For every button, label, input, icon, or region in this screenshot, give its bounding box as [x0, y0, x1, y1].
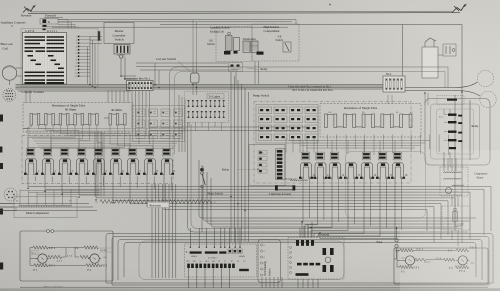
- wires bus to resistance box: [107, 90, 109, 103]
- wires above right contactors: [288, 140, 430, 142]
- unit2 outer outline: [170, 67, 449, 150]
- controller terminal list: [78, 36, 80, 38]
- lightning arrester second: [277, 186, 294, 190]
- cutout switch lower leads: [192, 84, 194, 96]
- controller drum chart frame: [23, 33, 67, 85]
- reverser bottom bar: [296, 273, 309, 276]
- feeder down right: [461, 25, 463, 93]
- pump switch terminal panel: [256, 105, 318, 144]
- spare coupler circle B: [480, 91, 496, 107]
- pantograph P1: [23, 6, 34, 13]
- label Rheostats: [148, 202, 170, 207]
- unit2 compartment box: [254, 102, 411, 184]
- left drop bundle: [151, 184, 153, 278]
- staircase right end drops: [490, 186, 492, 231]
- verticals compressor area: [443, 158, 445, 171]
- drum bottom band: [25, 82, 46, 84]
- contactor 15: [378, 152, 387, 160]
- reverser drum circle: [325, 257, 331, 263]
- bottom verticals center: [261, 277, 263, 291]
- connection box No.2: [383, 76, 405, 92]
- wire run to master controller: [58, 19, 296, 21]
- spare coupler circle A: [477, 70, 493, 86]
- fuse on motor box 1: [47, 230, 50, 233]
- rheostats zigzag: [100, 200, 155, 204]
- relay box far right: [425, 99, 490, 166]
- contactor 11: [316, 152, 325, 160]
- photo bottom edge: [0, 289, 500, 291]
- master controller switch box: [104, 23, 134, 44]
- box1 drop wires: [131, 91, 133, 129]
- auxiliary contact R: [40, 19, 58, 25]
- compensator collector wires: [20, 190, 100, 192]
- auxiliary contact third: [43, 28, 46, 30]
- verticals right resistance to contactor coils: [327, 135, 329, 149]
- resistor FF1: [34, 264, 48, 267]
- contactor 13: [346, 163, 357, 179]
- auxiliary device right top: [443, 44, 456, 56]
- reverser left terminals: [290, 247, 292, 249]
- contactor 16: [393, 152, 402, 160]
- resistance tubes right: [325, 114, 328, 128]
- transformer tank right: [422, 47, 438, 78]
- commutating drop wires: [188, 268, 190, 291]
- resistance tubes 46 ohm: [109, 114, 112, 126]
- main cable bus: [16, 84, 131, 86]
- coupler socket lower: [4, 188, 17, 201]
- reverser wires up: [299, 228, 301, 238]
- relay side marks: [258, 151, 267, 155]
- terminal bundle vertical: [89, 37, 91, 85]
- right contactor drops: [302, 177, 304, 223]
- resistor E4: [456, 249, 468, 252]
- relay under HT: [229, 63, 243, 72]
- motor circuit box 1: [20, 231, 113, 281]
- label To Lights: [207, 94, 224, 99]
- left edge bus lines: [0, 203, 14, 205]
- contactor 2: [43, 148, 52, 156]
- wire blowout to grid: [16, 67, 23, 69]
- main compensator box: [14, 197, 77, 218]
- commutating small boxes: [228, 249, 232, 254]
- governor box: [442, 206, 470, 230]
- contactor outlet staircase: [27, 175, 29, 187]
- reverser top contacts: [296, 240, 299, 246]
- commutating contact pairs: [187, 264, 190, 268]
- resistor AA1: [48, 255, 62, 258]
- right contactor enclosure: [346, 152, 426, 219]
- lighting fuse panel box: [185, 92, 229, 123]
- motor 2: [90, 254, 99, 263]
- trolley wire: [28, 13, 460, 14]
- HT drop wires: [254, 61, 256, 84]
- commutating detail panel: [185, 244, 257, 277]
- wires in motor box: [30, 248, 38, 259]
- governor device: [453, 212, 458, 222]
- resistance box right: [320, 104, 421, 138]
- resistance tubes 96 ohm: [30, 114, 33, 126]
- pantograph P2: [452, 5, 465, 13]
- bus to coupler circles: [405, 82, 477, 88]
- reverser middle bars: [297, 263, 302, 266]
- governor wires: [451, 196, 453, 206]
- junction dots: [27, 188, 29, 190]
- contactor 12: [330, 152, 339, 160]
- compressor motor box: [440, 167, 468, 196]
- center vertical bundle: [230, 72, 232, 242]
- wires below master controller: [120, 58, 122, 76]
- bottom bus wires: [106, 282, 493, 284]
- wires resistance to contactors: [28, 125, 31, 152]
- blow-out coil: [2, 66, 16, 80]
- terminal block panel: [133, 106, 185, 142]
- auxiliary contact F: [43, 25, 47, 27]
- drum contact bars: [25, 36, 46, 38]
- relay bank box: [249, 145, 285, 186]
- resistor EE1: [33, 246, 48, 249]
- high tension compartment box: [252, 24, 299, 61]
- drum finger lines: [25, 34, 27, 83]
- resistance box left: [23, 103, 133, 133]
- motor 1: [38, 254, 47, 263]
- outline drop to bus: [447, 67, 449, 88]
- relay inner loops: [431, 104, 480, 159]
- contactor 10: [301, 152, 310, 160]
- motor 3: [405, 256, 414, 265]
- oil switch compartment box: [216, 27, 252, 62]
- wires under fuse panel: [150, 126, 310, 128]
- resistor AA2: [80, 255, 90, 258]
- motor circuit box 2: [394, 248, 488, 284]
- fuse row lower: [188, 112, 190, 118]
- wires grid top to runs: [67, 20, 69, 29]
- cutout feed verticals: [192, 20, 194, 68]
- connection box No.1: [127, 81, 154, 91]
- commutating switch box: [258, 240, 281, 283]
- dark streak left of controller: [98, 31, 100, 41]
- resistor FF2: [86, 264, 101, 267]
- resistor E3: [400, 249, 414, 252]
- cut-out switch: [191, 73, 200, 83]
- coil sketch right: [239, 255, 244, 258]
- bottom enclosure loop: [139, 241, 344, 280]
- contactor 4: [77, 148, 86, 156]
- left edge marks: [0, 115, 3, 122]
- big wire loops lower: [106, 234, 493, 284]
- commutating right bar: [239, 269, 249, 271]
- box2 drop verticals: [387, 95, 389, 104]
- main switch: [201, 172, 204, 175]
- coil sketch left: [191, 255, 196, 258]
- contactor 9: [162, 148, 171, 156]
- main compensator winding: [19, 205, 72, 206]
- fuse panel left drop bundle: [178, 95, 180, 152]
- switch 3E device: [283, 42, 291, 52]
- center corner wires: [188, 122, 469, 232]
- left resistance drop bundle: [94, 132, 96, 197]
- reverser drop wires: [297, 279, 299, 291]
- relay contacts far right: [448, 114, 457, 116]
- fuse row upper: [188, 101, 190, 107]
- contactor 14: [362, 152, 371, 160]
- commutating box terminals: [260, 244, 262, 246]
- reverser right lower pair: [323, 265, 327, 272]
- contactor 7: [128, 148, 137, 156]
- transformer device: [243, 41, 250, 53]
- reverser right upper pair: [323, 248, 327, 255]
- compensator taps: [19, 190, 21, 203]
- commutating feed wires top: [189, 228, 191, 247]
- photo speck top: [329, 4, 331, 6]
- contactor 3: [60, 148, 69, 156]
- wires terminals to master controller: [90, 36, 102, 38]
- contactor box left: [22, 136, 173, 184]
- label EE2: [101, 248, 113, 252]
- fuse main: [395, 239, 398, 242]
- contactor 8: [145, 148, 154, 156]
- relay ladder strip: [276, 149, 286, 180]
- verticals right of center: [461, 92, 463, 197]
- label E1: [32, 251, 39, 255]
- wire top return: [160, 24, 462, 26]
- corner bus wires lower: [199, 160, 476, 218]
- contactor 1: [26, 148, 35, 156]
- resistor E2: [84, 246, 98, 249]
- contactor 6: [111, 148, 120, 156]
- resistor FF4: [455, 266, 468, 269]
- kicking coil second: [290, 180, 308, 181]
- oil switch device: [226, 36, 233, 51]
- relay box feed verticals: [424, 93, 426, 105]
- wires in motor box 2: [397, 250, 405, 260]
- contactor 5: [94, 148, 103, 156]
- master controller drum: [114, 45, 130, 55]
- motor 4: [458, 256, 467, 265]
- resistor AA4: [444, 258, 456, 261]
- wires HT to left: [136, 62, 228, 64]
- reverser box: [288, 238, 344, 280]
- pump panel drop wires: [285, 138, 287, 153]
- aux relay small box: [437, 96, 464, 105]
- resistor FF3: [400, 265, 413, 268]
- left edge feeder wires: [0, 203, 89, 205]
- commutating bar row: [190, 251, 202, 253]
- coupler socket upper: [3, 89, 16, 102]
- resistor AA3: [415, 258, 426, 261]
